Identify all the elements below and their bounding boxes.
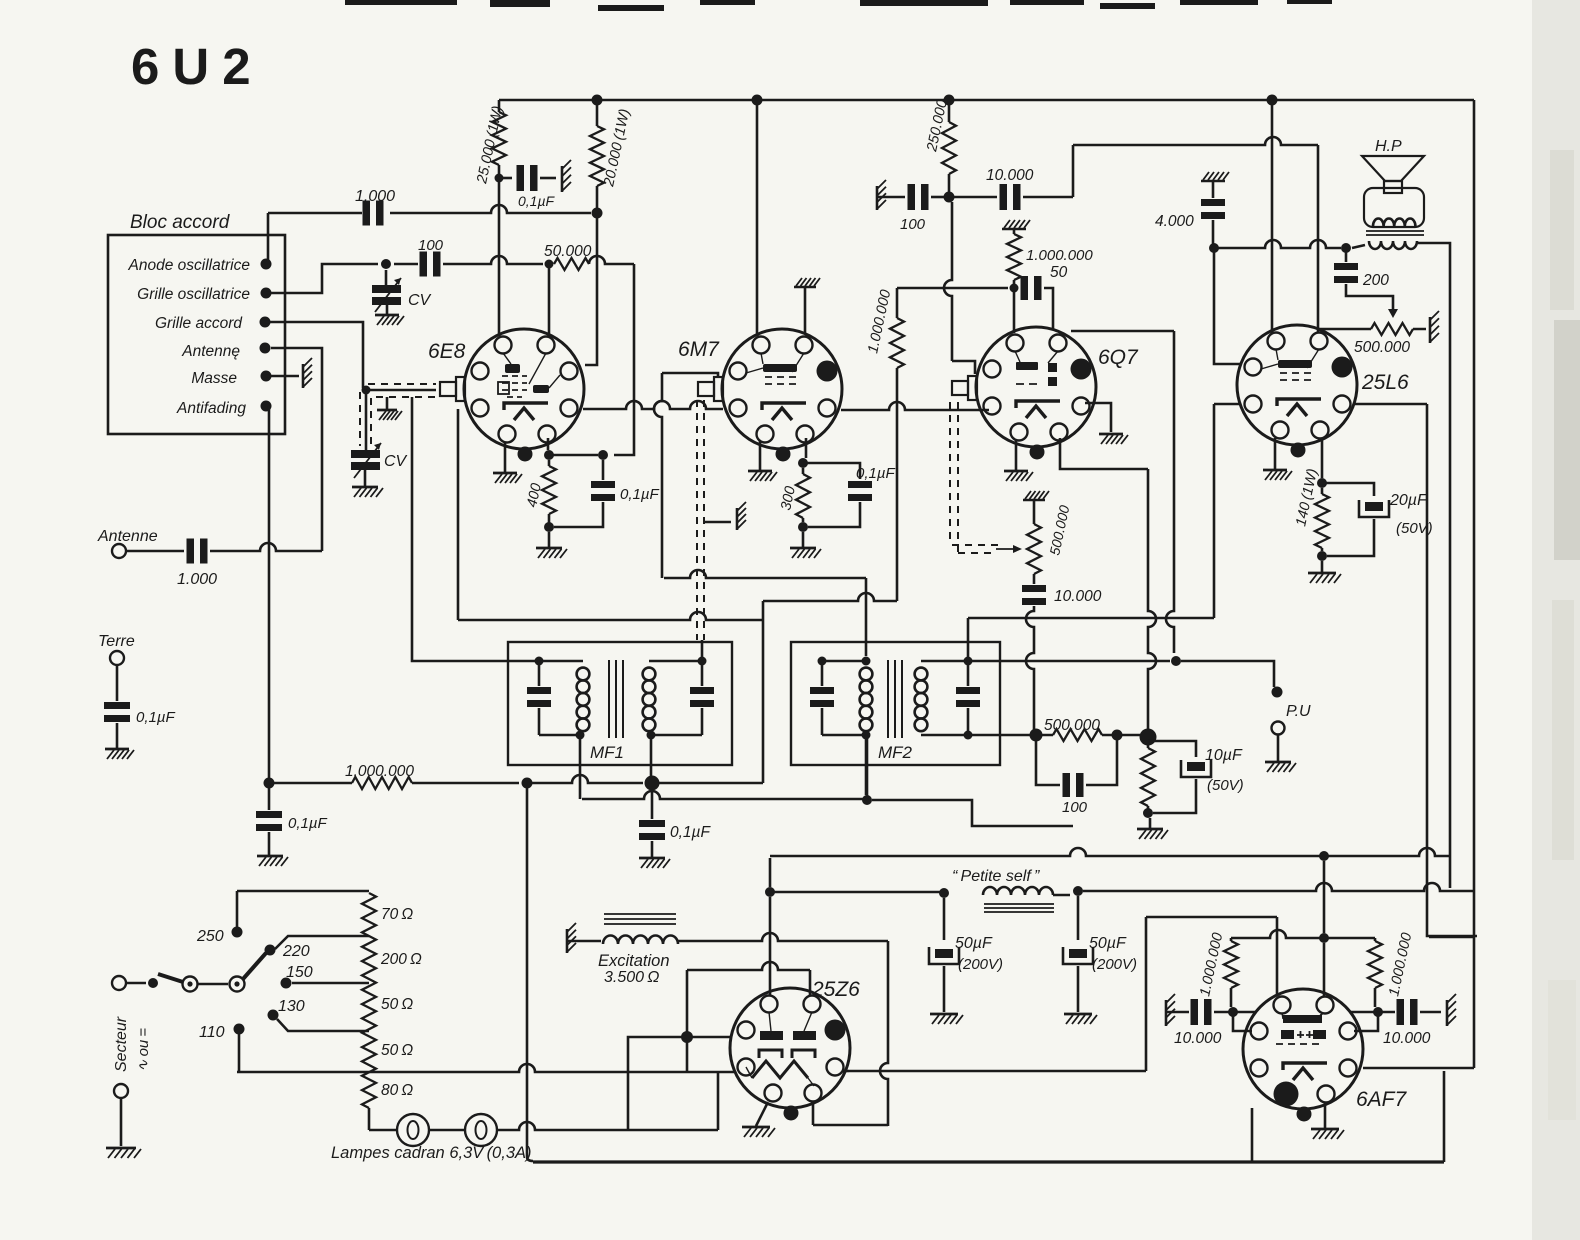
svg-text:(50V): (50V) bbox=[1396, 520, 1433, 537]
wire secondary left bbox=[1352, 245, 1365, 248]
wire grille accord bbox=[265, 322, 363, 388]
wire lamps to 25Z6 bbox=[497, 1122, 718, 1130]
svg-text:50 Ω: 50 Ω bbox=[381, 996, 413, 1013]
svg-text:300: 300 bbox=[778, 485, 799, 512]
wire antenna cap to riser bbox=[210, 543, 322, 551]
svg-text:(200V): (200V) bbox=[1092, 956, 1137, 973]
wire 6E8 top-left pin bbox=[498, 213, 501, 336]
wire y1071 link bbox=[849, 1070, 1146, 1073]
wire heater y1072 bbox=[237, 1064, 735, 1072]
svg-text:“ Petite self ”: “ Petite self ” bbox=[952, 868, 1040, 885]
tube 6Q7 grid plug bbox=[968, 376, 977, 400]
ground 6M7 left pin bbox=[759, 441, 762, 471]
transformer MF1 box bbox=[508, 642, 732, 765]
wire x763 down bbox=[762, 601, 765, 783]
wire 25L6 cathode right bbox=[1354, 403, 1427, 406]
wire 25L6 screen bbox=[1214, 252, 1240, 364]
ground mains bbox=[106, 1147, 136, 1150]
chassis 10.000 6AF7 left bbox=[1165, 1000, 1168, 1026]
wire 597 down to 6E8 bbox=[585, 213, 597, 365]
wire x1427 down bbox=[1427, 404, 1477, 936]
svg-text:50 Ω: 50 Ω bbox=[381, 1042, 413, 1059]
chassis shield 6M7 bbox=[704, 521, 731, 524]
wire x718 link bbox=[717, 1072, 720, 1130]
svg-text:Masse: Masse bbox=[191, 370, 237, 387]
tube 25Z6 bbox=[730, 988, 850, 1108]
svg-text:6M7: 6M7 bbox=[678, 338, 720, 361]
ground CV tuning bbox=[364, 470, 367, 487]
svg-text:Grille accord: Grille accord bbox=[155, 315, 243, 332]
resistor 400 bbox=[548, 460, 551, 466]
node bus 6M7 bbox=[752, 95, 763, 106]
node 25.000 bottom bbox=[495, 174, 504, 183]
wire antenna to cap bbox=[126, 550, 184, 553]
MF2 core bbox=[888, 660, 902, 738]
wire y970 line bbox=[687, 962, 810, 970]
wire line A y578 bbox=[664, 570, 866, 578]
wire 25L6 cath down bbox=[1214, 404, 1240, 618]
node y735 junctions bbox=[1030, 729, 1043, 742]
wire 6Q7 anode right bbox=[1071, 330, 1174, 333]
capacitor 0.1uF terre bbox=[116, 665, 119, 701]
wire ballast top bbox=[237, 891, 369, 927]
svg-text:Antifading: Antifading bbox=[176, 400, 246, 417]
wire 6AF7 res bus bbox=[1231, 930, 1375, 938]
wire MF2 primary return bbox=[865, 735, 868, 795]
node bus 20.000 bbox=[592, 95, 603, 106]
svg-text:6E8: 6E8 bbox=[428, 340, 466, 363]
dashed tuning link 6E8 bbox=[368, 383, 436, 385]
wire line B y620 bbox=[458, 612, 763, 620]
node PU junction bbox=[1171, 656, 1181, 666]
node bus 25L6 bbox=[1267, 95, 1278, 106]
inductor excitation bbox=[566, 929, 569, 953]
resistor 250.000 bbox=[948, 100, 951, 122]
terminal 130 tap bbox=[268, 1010, 279, 1021]
svg-text:1.000: 1.000 bbox=[177, 571, 217, 588]
svg-text:3.500 Ω: 3.500 Ω bbox=[604, 969, 659, 986]
svg-text:500.000: 500.000 bbox=[1354, 339, 1410, 356]
wire heater return y1161 bbox=[533, 1160, 1444, 1163]
wire MF2 secondary out bbox=[972, 660, 1170, 663]
speaker primary coil bbox=[1373, 219, 1415, 226]
MF1 core bbox=[609, 660, 623, 738]
svg-text:10.000: 10.000 bbox=[986, 167, 1034, 184]
ground MF1 cap bbox=[639, 857, 665, 860]
capacitor 0.1uF 6M7 bbox=[803, 463, 860, 479]
capacitor 50 bbox=[1021, 276, 1029, 300]
scan artifact top edge marks bbox=[345, 0, 1332, 11]
wire 25L6 to 140 bbox=[1321, 438, 1324, 478]
ground antifading cap bbox=[257, 855, 283, 858]
wire 25Z6 anode riser bbox=[769, 897, 772, 995]
svg-text:110: 110 bbox=[199, 1024, 225, 1041]
wire y891 line bbox=[1083, 883, 1474, 891]
svg-text:H.P: H.P bbox=[1375, 138, 1402, 155]
chassis masse bbox=[266, 375, 299, 378]
node big 10uF junction bbox=[1140, 729, 1157, 746]
wire right border bbox=[1473, 100, 1476, 1068]
wire 6M7 cath pin bbox=[805, 438, 808, 458]
svg-text:Lampes cadran 6,3V (0,3A): Lampes cadran 6,3V (0,3A) bbox=[331, 1144, 532, 1162]
terminal terre bbox=[110, 651, 124, 665]
terminal PU hot bbox=[1272, 687, 1283, 698]
wire y892 to self bbox=[770, 891, 944, 894]
tube 25L6 bbox=[1237, 325, 1357, 445]
capacitor 1.000 (osc) bbox=[363, 201, 371, 226]
speaker horn bbox=[1362, 156, 1424, 181]
capacitor 20uF bbox=[1322, 483, 1374, 496]
ground 25Z6 bbox=[756, 1102, 768, 1126]
ground 50uF right bbox=[1064, 1013, 1092, 1016]
arrow 200 to pot bbox=[1388, 309, 1398, 318]
svg-text:80 Ω: 80 Ω bbox=[381, 1082, 413, 1099]
node 6E8 grid junction bbox=[362, 386, 371, 395]
wire 25Z6 plate top bbox=[769, 858, 772, 887]
transformer MF2 box bbox=[791, 642, 1000, 765]
svg-text:130: 130 bbox=[278, 998, 305, 1015]
svg-text:220: 220 bbox=[282, 943, 310, 960]
scan artifact right edge shading bbox=[1532, 0, 1580, 1240]
wire heater return x527 bbox=[527, 788, 533, 1161]
wire staircase bbox=[1429, 936, 1474, 939]
svg-text:6Q7: 6Q7 bbox=[1098, 346, 1139, 369]
capacitor 10.000 6AF7 left bbox=[1166, 1011, 1189, 1014]
svg-text:1.000.000: 1.000.000 bbox=[865, 288, 894, 354]
ground grid leak 6E8 bbox=[386, 397, 389, 410]
ground 6M7 cathode bbox=[802, 532, 805, 548]
svg-text:CV: CV bbox=[408, 292, 432, 309]
capacitor 0.1uF 6E8 cathode bbox=[602, 460, 605, 480]
svg-text:(50V): (50V) bbox=[1207, 777, 1244, 794]
svg-text:25L6: 25L6 bbox=[1361, 371, 1409, 394]
ground volume top bbox=[1023, 499, 1045, 502]
svg-text:CV: CV bbox=[384, 453, 408, 470]
wire 6Q7 cathode bbox=[1085, 403, 1111, 432]
svg-text:MF1: MF1 bbox=[590, 743, 624, 762]
wire 25L6 g2 feed bbox=[1317, 145, 1320, 333]
tube 6Q7 bbox=[976, 327, 1096, 447]
wire AVC line to x763 bbox=[659, 782, 763, 785]
wire x634 crossing bbox=[614, 264, 634, 455]
capacitor 100 (osc) bbox=[420, 252, 428, 277]
node 20.000 bottom bbox=[592, 208, 603, 219]
wire 25Z6 bottom right bbox=[813, 1102, 888, 1125]
chassis 6E8 anode cap bbox=[561, 166, 564, 192]
inductor petite self bbox=[983, 887, 1053, 895]
wire y288 line bbox=[897, 287, 1008, 290]
ground 6M7 top bbox=[794, 286, 816, 289]
wire 6Q7 grid feed bbox=[944, 202, 952, 361]
capacitor CV oscillator bbox=[385, 270, 388, 285]
svg-text:P.U: P.U bbox=[1286, 703, 1311, 720]
svg-text:25Z6: 25Z6 bbox=[811, 978, 860, 1001]
wire antifading down bbox=[268, 406, 271, 783]
wire line C continue bbox=[872, 800, 1073, 826]
ground 4.000 bbox=[1201, 180, 1225, 183]
svg-text:250: 250 bbox=[196, 928, 224, 945]
wire output bus y855 bbox=[770, 848, 1450, 856]
ground 6E8 pin bbox=[504, 443, 507, 473]
tube 6M7 bbox=[722, 329, 842, 449]
capacitor 10.000 (volume) bbox=[1022, 585, 1046, 592]
svg-text:20.000 (1W): 20.000 (1W) bbox=[601, 108, 633, 189]
svg-text:20µF: 20µF bbox=[1389, 492, 1428, 509]
resistor ballast chain bbox=[362, 893, 376, 1108]
svg-text:6U2: 6U2 bbox=[131, 38, 264, 95]
wire grille osc row bbox=[266, 264, 378, 293]
wire y601 line bbox=[763, 593, 897, 601]
svg-text:Secteur: Secteur bbox=[113, 1016, 130, 1072]
speaker secondary coil bbox=[1369, 241, 1417, 249]
wire antenna riser bbox=[271, 348, 322, 551]
capacitor 0.1uF MF1 bbox=[651, 790, 654, 819]
wire to PU bbox=[1181, 661, 1274, 687]
svg-text:50µF: 50µF bbox=[1089, 935, 1127, 952]
node big junction MF1 bottom bbox=[645, 776, 660, 791]
capacitor 0.1uF antifading bbox=[268, 788, 271, 810]
ground 6Q7 cathode bbox=[1099, 433, 1123, 436]
wire 6AF7 left pin link bbox=[1233, 1012, 1252, 1031]
resistor 1.000.000 (6Q7 grid) bbox=[1013, 229, 1016, 234]
wire 687 to tube bbox=[692, 1036, 731, 1039]
wire grid lead to plug bbox=[370, 389, 436, 392]
wire secondary right to bus bbox=[1418, 243, 1450, 888]
svg-text:4.000: 4.000 bbox=[1155, 213, 1194, 230]
tube 6M7 grid plug bbox=[714, 377, 723, 401]
capacitor 100 (6Q7) bbox=[877, 196, 905, 199]
ground terre bbox=[105, 748, 129, 751]
wire 6Q7 diode down bbox=[1060, 438, 1148, 469]
ground 6Q7 bottom bbox=[1015, 440, 1018, 471]
dashed link 6M7 bbox=[696, 400, 698, 640]
MF1 primary cap bbox=[535, 657, 544, 666]
wire pin bus 6E8-6M7 bbox=[583, 401, 723, 409]
resistor bias bleeder bbox=[1147, 743, 1150, 748]
lamp dial 1 bbox=[369, 1129, 397, 1132]
arrow volume wiper bbox=[996, 548, 1014, 550]
svg-text:500.000: 500.000 bbox=[1046, 504, 1072, 557]
svg-text:MF2: MF2 bbox=[878, 743, 913, 762]
wire 25L6 anode B+ bbox=[1271, 100, 1274, 333]
wire x412 MF1 feed bbox=[412, 397, 539, 661]
speaker transformer box bbox=[1364, 188, 1424, 227]
wire x458 from bus bbox=[457, 409, 460, 620]
wire ballast bottom bbox=[368, 1108, 371, 1130]
capacitor 50uF right bbox=[1077, 896, 1080, 940]
ground 50uF left bbox=[930, 1013, 958, 1016]
terminal PU gnd bbox=[1272, 722, 1285, 735]
svg-text:1.000.000: 1.000.000 bbox=[1386, 931, 1415, 997]
resistor 300 bbox=[802, 468, 805, 474]
resistor 20.000(1W) bbox=[596, 100, 599, 126]
wire anode osc up bbox=[267, 213, 270, 262]
capacitor 1.000 antenna bbox=[187, 539, 195, 564]
svg-text:10.000: 10.000 bbox=[1174, 1030, 1222, 1047]
svg-text:100: 100 bbox=[900, 216, 926, 233]
capacitor 50uF left bbox=[943, 898, 946, 940]
svg-text:1.000.000: 1.000.000 bbox=[1026, 247, 1093, 264]
svg-text:100: 100 bbox=[418, 237, 444, 254]
svg-text:70 Ω: 70 Ω bbox=[381, 906, 413, 923]
svg-text:150: 150 bbox=[286, 964, 313, 981]
svg-text:0,1µF: 0,1µF bbox=[670, 824, 711, 841]
svg-text:Terre: Terre bbox=[98, 633, 135, 650]
node antifading junction bbox=[264, 778, 275, 789]
resistor 1.000.000 6AF7 right bbox=[1368, 941, 1382, 988]
svg-text:10µF: 10µF bbox=[1205, 747, 1243, 764]
node 4.000 bottom bbox=[1209, 243, 1219, 253]
wire y248 line bbox=[1214, 240, 1341, 248]
node MF1 bottom taps bbox=[576, 731, 585, 740]
svg-text:Antennę: Antennę bbox=[181, 343, 240, 360]
svg-text:0,1µF: 0,1µF bbox=[288, 815, 327, 832]
wire y735 rail bbox=[972, 734, 1030, 737]
svg-text:100: 100 bbox=[1062, 799, 1088, 816]
wire 6AF7 right side bbox=[1363, 1067, 1474, 1070]
MF1 secondary cap bbox=[698, 657, 707, 666]
ground below CV osc bbox=[386, 305, 389, 315]
resistor 140(1W) bbox=[1321, 488, 1324, 494]
terminal mains 2 bbox=[114, 1084, 128, 1098]
wire MF2 cap top out bbox=[967, 618, 970, 661]
wire 50.000 junction down bbox=[548, 264, 551, 336]
node 1meg-50 junction bbox=[1010, 284, 1019, 293]
svg-text:(200V): (200V) bbox=[958, 956, 1003, 973]
svg-text:50: 50 bbox=[1050, 264, 1068, 281]
capacitor CV tuning bbox=[365, 394, 368, 450]
potentiometer 500.000 (volume) bbox=[1033, 500, 1036, 524]
svg-text:50µF: 50µF bbox=[955, 935, 993, 952]
chassis 10.000 6AF7 right bbox=[1446, 1000, 1449, 1026]
node bus 250.000 bbox=[944, 95, 955, 106]
ground PU bbox=[1277, 735, 1280, 762]
svg-text:Excitation: Excitation bbox=[598, 952, 670, 970]
svg-text:Anode oscillatrice: Anode oscillatrice bbox=[128, 257, 251, 274]
svg-text:10.000: 10.000 bbox=[1054, 588, 1102, 605]
capacitor 10uF bbox=[1148, 741, 1196, 757]
svg-text:0,1µF: 0,1µF bbox=[136, 709, 175, 726]
wire 687 left L bbox=[628, 1037, 687, 1129]
svg-text:Grille oscillatrice: Grille oscillatrice bbox=[137, 286, 250, 303]
switch mains bbox=[112, 976, 126, 990]
wire MF1 secondary return bbox=[650, 735, 653, 776]
svg-text:10.000: 10.000 bbox=[1383, 1030, 1431, 1047]
node MF2 taps bbox=[862, 657, 871, 666]
resistor 1.000.000 6AF7 left bbox=[1224, 941, 1238, 988]
ground 140 bbox=[1321, 561, 1324, 573]
terminal 150 tap bbox=[281, 978, 292, 989]
svg-text:∿ ou =: ∿ ou = bbox=[135, 1028, 152, 1072]
ground 25L6 pin bbox=[1274, 438, 1277, 470]
wire line C y799 bbox=[582, 791, 860, 799]
node 250.000 bottom bbox=[944, 192, 955, 203]
wire solid 6M7 grid stub bbox=[701, 640, 704, 658]
wire 6M7 top-left pin bbox=[756, 105, 759, 336]
wire x662 grid 6M7 bbox=[662, 373, 718, 377]
capacitor 10.000 (6Q7) bbox=[954, 196, 997, 199]
tube 6E8 bbox=[464, 329, 584, 449]
chassis 100 cap 6Q7 bbox=[876, 186, 879, 210]
wire 6E8 pin down bbox=[547, 438, 550, 450]
node osc junction bbox=[381, 259, 391, 269]
wire x866 down to MF2 bbox=[865, 578, 868, 656]
capacitor 200 bbox=[1345, 252, 1348, 262]
wire y917 feed bbox=[1146, 917, 1277, 1071]
potentiometer 500.000 (tone) bbox=[1371, 323, 1413, 335]
MF2 secondary cap bbox=[964, 657, 973, 666]
wire 100 to 50.000 bbox=[443, 256, 543, 264]
capacitor 0.1uF 6E8 anode bbox=[499, 177, 512, 180]
wire MF1 primary return bbox=[579, 735, 582, 799]
ground 1meg 6Q7 bbox=[1002, 228, 1026, 231]
terminal antenna bbox=[112, 544, 126, 558]
block Bloc accord box bbox=[108, 235, 285, 434]
resistor 1.000.000 (6M7 screen) bbox=[896, 368, 899, 601]
wire 25Z6 right pin bbox=[843, 1070, 849, 1073]
tube 6AF7 bbox=[1243, 989, 1363, 1109]
wire y213 line bbox=[268, 212, 362, 215]
MF2 secondary coil bbox=[915, 668, 928, 681]
svg-text:200: 200 bbox=[1362, 272, 1389, 289]
capacitor 100 AF bbox=[1036, 740, 1060, 785]
wire to cap 100 bbox=[394, 263, 418, 266]
MF2 primary coil bbox=[822, 661, 866, 735]
svg-text:6AF7: 6AF7 bbox=[1356, 1088, 1408, 1111]
tube 6E8 grid plug bbox=[456, 377, 465, 401]
ground 6AF7 bbox=[1324, 1103, 1327, 1129]
capacitor 4.000 bbox=[1212, 181, 1215, 198]
dashed AVC to volume bbox=[949, 402, 951, 545]
resistor 25.000(1W) bbox=[498, 100, 501, 112]
wire pin bus 6M7-6Q7 bbox=[841, 402, 989, 410]
lamp dial 2 bbox=[429, 1129, 465, 1132]
chassis tone pot bbox=[1429, 317, 1432, 343]
MF2 primary cap bbox=[818, 657, 827, 666]
wire x687 down bbox=[686, 970, 689, 1072]
svg-text:200 Ω: 200 Ω bbox=[380, 951, 422, 968]
wire tone pot to tube bbox=[1319, 328, 1364, 331]
svg-text:0,1µF: 0,1µF bbox=[620, 486, 659, 503]
terminal 250V tap bbox=[232, 927, 243, 938]
svg-text:0,1µF: 0,1µF bbox=[856, 465, 895, 482]
svg-text:1.000: 1.000 bbox=[355, 188, 395, 205]
wire AVC line to MF1 bbox=[532, 775, 643, 783]
capacitor 10.000 6AF7 right bbox=[1351, 1011, 1395, 1014]
node AVC-MF1 junction bbox=[522, 778, 533, 789]
speaker core bbox=[1366, 231, 1424, 235]
node self right bbox=[1073, 886, 1083, 896]
wire excitation to 25Z6 bbox=[678, 933, 888, 941]
svg-text:0,1µF: 0,1µF bbox=[518, 193, 556, 209]
wire 6AF7 right pin link bbox=[1354, 1012, 1378, 1031]
wire cathode node 6E8 bbox=[553, 454, 598, 457]
MF1 secondary coil bbox=[643, 668, 656, 681]
svg-text:Bloc accord: Bloc accord bbox=[130, 212, 231, 233]
wire 10.000 up-over bbox=[1072, 145, 1075, 197]
wire x1324 down bbox=[1323, 861, 1326, 933]
MF1 primary coil bbox=[539, 661, 583, 735]
terminal 220 tap bbox=[265, 945, 276, 956]
wire B+ bus bbox=[499, 99, 1474, 102]
ground 6E8 cathode bbox=[548, 532, 551, 548]
terminal 110 tap bbox=[234, 1024, 245, 1035]
ground bleeder bbox=[1149, 818, 1152, 829]
svg-text:Antenne: Antenne bbox=[97, 528, 158, 545]
